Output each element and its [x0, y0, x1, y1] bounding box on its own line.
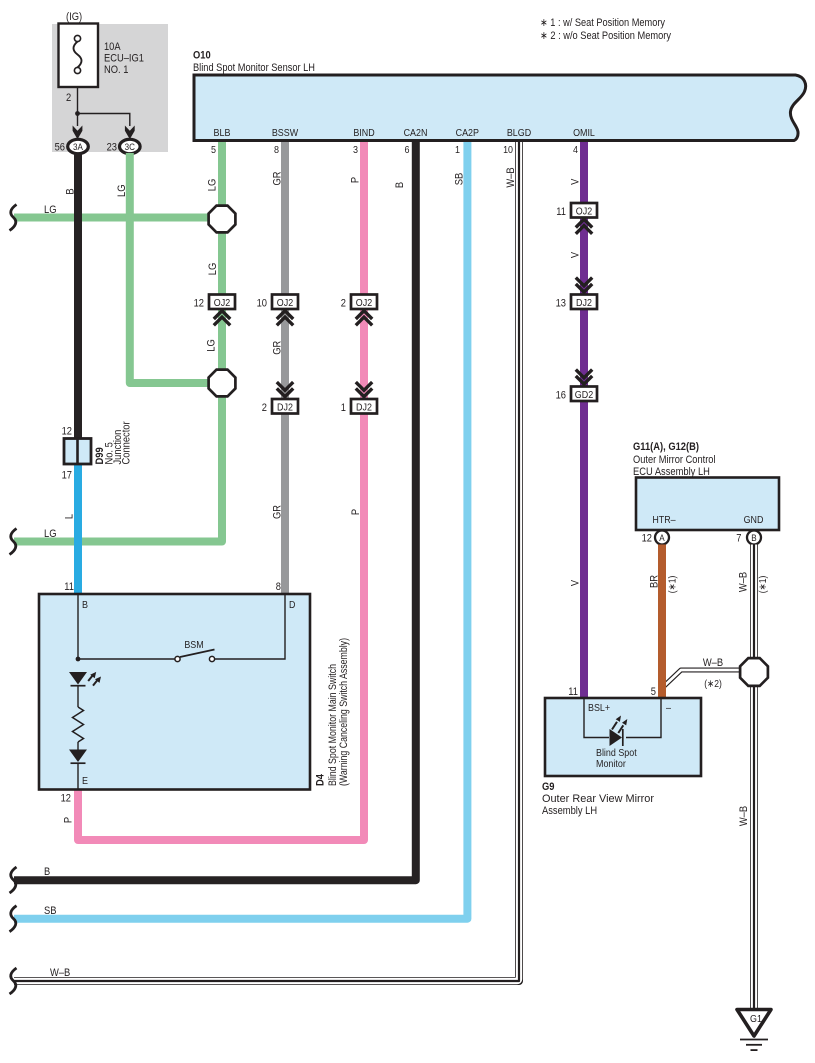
svg-text:G9: G9: [542, 781, 555, 793]
wire LED to resistor: [77, 686, 79, 707]
svg-text:(∗2): (∗2): [704, 678, 722, 690]
svg-text:8: 8: [274, 144, 279, 156]
svg-text:L: L: [64, 514, 76, 519]
chevrons up below 12 OJ2: [214, 311, 230, 326]
break squiggle left W-B: [10, 968, 17, 994]
svg-text:GND: GND: [744, 514, 764, 526]
svg-text:∗ 2 : w/o Seat Position Memory: ∗ 2 : w/o Seat Position Memory: [540, 30, 671, 42]
svg-text:OJ2: OJ2: [576, 206, 593, 218]
wire resistor to diode: [77, 742, 79, 750]
svg-text:10: 10: [257, 298, 267, 310]
connector 3C: [120, 139, 141, 153]
svg-text:5: 5: [211, 144, 216, 156]
wire P DJ2 down, left, up to switch pin 12: [78, 413, 364, 840]
wire V OJ2 to DJ2: [580, 216, 588, 295]
wire W-B from BLGD pin 10 down and left to break: [14, 139, 519, 981]
ECU O10 Blind Spot Monitor Sensor LH: [194, 75, 806, 141]
connector 12 OJ2: [209, 295, 235, 310]
svg-text:G11(A), G12(B): G11(A), G12(B): [633, 441, 699, 453]
svg-text:LG: LG: [44, 204, 57, 216]
svg-text:Assembly LH: Assembly LH: [542, 805, 597, 817]
connector 2 DJ2: [272, 399, 298, 414]
svg-text:B: B: [82, 599, 88, 611]
svg-text:BLB: BLB: [214, 127, 231, 139]
svg-text:12: 12: [61, 793, 71, 805]
chevrons up below 11 OJ2: [576, 219, 592, 234]
svg-text:O10: O10: [193, 50, 211, 62]
wire LG octagon J1 to connector OJ2: [218, 232, 226, 295]
svg-text:4: 4: [573, 144, 578, 156]
svg-text:BSM: BSM: [184, 639, 203, 651]
wire LG from 3C down and right to octagon J2: [130, 153, 209, 383]
ECU G11 box: [636, 478, 779, 531]
fuse F 10A ECU-IG1 NO.1: [59, 24, 99, 88]
svg-text:V: V: [570, 178, 582, 185]
svg-text:17: 17: [62, 470, 72, 482]
svg-text:DJ2: DJ2: [576, 297, 592, 309]
svg-text:1: 1: [455, 144, 460, 156]
svg-text:V: V: [570, 251, 582, 258]
svg-text:11: 11: [556, 206, 566, 218]
wire inside from B: [77, 594, 79, 659]
svg-text:2: 2: [341, 298, 346, 310]
svg-text:B: B: [65, 188, 77, 194]
connector 10 OJ2: [272, 295, 298, 310]
wire LG horizontal upper from left break: [14, 214, 209, 222]
svg-text:3A: 3A: [73, 142, 83, 153]
svg-text:Blind Spot Monitor Sensor LH: Blind Spot Monitor Sensor LH: [193, 62, 315, 74]
octagon junction J2: [209, 370, 236, 397]
wire GR from BSSW pin 8 to OJ2: [281, 141, 289, 295]
svg-text:∗ 1 : w/ Seat Position Memory: ∗ 1 : w/ Seat Position Memory: [540, 17, 665, 29]
svg-text:LG: LG: [44, 528, 57, 540]
wire W-B branch octagon to pin 5: [663, 670, 746, 688]
wire GR DJ2 to switch pin D: [281, 413, 289, 594]
pin A circle: [655, 531, 669, 545]
svg-text:B: B: [394, 182, 406, 188]
svg-text:GR: GR: [272, 505, 284, 519]
svg-text:LG: LG: [116, 184, 128, 197]
svg-text:10: 10: [503, 144, 513, 156]
svg-text:D4: D4: [315, 773, 327, 786]
svg-text:2: 2: [66, 92, 71, 104]
connector 2 OJ2: [351, 295, 377, 310]
svg-text:P: P: [349, 177, 361, 183]
svg-text:OMIL: OMIL: [573, 127, 595, 139]
svg-text:1: 1: [341, 402, 346, 414]
wire B from CA2N pin 6 down and left to break: [14, 141, 416, 880]
wire branch to 3C: [78, 114, 130, 127]
chevrons up below 10 OJ2: [277, 311, 293, 326]
svg-text:E: E: [82, 775, 88, 787]
wire LG octagon J2 down and left to break: [14, 396, 222, 542]
svg-text:BIND: BIND: [353, 127, 375, 139]
break squiggle left B: [10, 867, 17, 893]
svg-text:V: V: [570, 579, 582, 586]
svg-text:G1: G1: [750, 1013, 762, 1025]
svg-text:OJ2: OJ2: [214, 297, 231, 309]
svg-text:W–B: W–B: [703, 657, 723, 669]
chevrons down above 1 DJ2: [356, 382, 372, 397]
svg-text:SB: SB: [44, 905, 57, 917]
wire GR between OJ2 and DJ2: [281, 308, 289, 400]
svg-text:–: –: [666, 702, 671, 714]
svg-text:LG: LG: [207, 263, 219, 276]
svg-text:10A: 10A: [104, 41, 121, 53]
wire stem to 3A: [77, 114, 79, 127]
svg-text:GD2: GD2: [575, 389, 594, 401]
svg-text:GR: GR: [272, 341, 284, 355]
wire LG from BLB pin 5 to octagon J1: [218, 141, 226, 206]
svg-text:BR: BR: [649, 575, 661, 588]
svg-text:Outer Rear View Mirror: Outer Rear View Mirror: [542, 793, 654, 805]
chevrons down above 13 DJ2: [576, 278, 592, 293]
pin B circle: [747, 531, 761, 545]
svg-text:12: 12: [194, 298, 204, 310]
switch BSM: [175, 650, 215, 662]
svg-text:3C: 3C: [125, 142, 135, 153]
svg-text:16: 16: [556, 390, 566, 402]
svg-text:W–B: W–B: [738, 572, 750, 592]
svg-text:12: 12: [62, 426, 72, 438]
LED blind spot monitor: [610, 716, 628, 747]
svg-text:2: 2: [262, 402, 267, 414]
octagon junction J3: [740, 658, 768, 686]
wire V from OMIL pin 4 to OJ2: [580, 141, 588, 203]
svg-text:W–B: W–B: [738, 806, 750, 826]
junction connector D99: [74, 464, 82, 594]
connector 3A: [68, 139, 89, 153]
resistor: [73, 707, 84, 742]
wire fuse to junction: [77, 88, 79, 114]
wire W-B from pin B to ground: [750, 545, 758, 1010]
connector arrow into 3C: [125, 126, 135, 140]
wire LG below OJ2 to octagon J2: [218, 308, 226, 370]
wire P from BIND pin 3 to OJ2: [360, 141, 368, 295]
connector 16 GD2: [571, 387, 597, 402]
svg-text:(Warning Canceling Switch Asse: (Warning Canceling Switch Assembly): [338, 638, 350, 786]
svg-text:11: 11: [64, 581, 74, 593]
svg-text:56: 56: [55, 142, 65, 154]
svg-text:6: 6: [405, 144, 410, 156]
svg-text:DJ2: DJ2: [277, 402, 293, 414]
svg-text:LG: LG: [207, 179, 219, 192]
wire dot to switch: [78, 658, 175, 660]
svg-text:W–B: W–B: [50, 967, 70, 979]
diode: [69, 750, 87, 764]
octagon junction J1: [209, 206, 236, 233]
svg-text:BSSW: BSSW: [272, 127, 298, 139]
svg-text:(IG): (IG): [66, 11, 82, 23]
svg-text:7: 7: [736, 533, 741, 545]
svg-text:HTR–: HTR–: [652, 514, 675, 526]
svg-text:LG: LG: [206, 339, 218, 352]
svg-text:Connector: Connector: [121, 421, 133, 464]
node dot: [76, 657, 81, 662]
svg-text:B: B: [44, 866, 50, 878]
junction dot: [75, 111, 80, 116]
chevrons down above 16 GD2: [576, 370, 592, 385]
svg-text:P: P: [63, 817, 75, 823]
svg-text:D: D: [289, 599, 296, 611]
svg-text:11: 11: [568, 686, 578, 698]
svg-text:(∗1): (∗1): [666, 576, 678, 594]
connector 1 DJ2: [351, 399, 377, 414]
svg-text:BLGD: BLGD: [507, 127, 532, 139]
LED indicator: [69, 672, 101, 686]
svg-text:SB: SB: [454, 173, 466, 186]
fuse block shaded area: [52, 24, 168, 152]
earth symbol: [740, 1040, 768, 1051]
wire B from 3A to D99 pin 12: [74, 153, 82, 439]
svg-text:A: A: [659, 533, 665, 544]
svg-text:Outer Mirror Control: Outer Mirror Control: [633, 454, 716, 466]
break squiggle left upper LG: [10, 205, 17, 231]
svg-text:5: 5: [651, 686, 656, 698]
connector 11 OJ2 on V wire: [571, 203, 597, 218]
svg-text:8: 8: [276, 581, 281, 593]
svg-text:OJ2: OJ2: [356, 297, 373, 309]
svg-text:13: 13: [556, 298, 566, 310]
connector 13 DJ2: [571, 295, 597, 310]
svg-text:P: P: [350, 509, 362, 515]
svg-text:OJ2: OJ2: [277, 297, 294, 309]
wire V DJ2 to GD2: [580, 308, 588, 387]
svg-text:3: 3: [353, 144, 358, 156]
svg-text:CA2P: CA2P: [456, 127, 479, 139]
svg-text:12: 12: [642, 533, 652, 545]
inner wiring G9: [584, 699, 609, 738]
wire SB from CA2P pin 1 down and left to break: [14, 141, 467, 919]
svg-text:W–B: W–B: [505, 167, 517, 187]
svg-text:BSL+: BSL+: [588, 702, 610, 714]
wire diode to E: [77, 763, 79, 790]
chevrons down above 2 DJ2: [277, 382, 293, 397]
svg-text:GR: GR: [272, 171, 284, 185]
svg-text:Monitor: Monitor: [596, 758, 626, 770]
ground G1: [737, 1010, 771, 1037]
wire V GD2 to G9 pin 11: [580, 400, 588, 698]
break squiggle left SB: [10, 906, 17, 932]
wire P between OJ2 and DJ2: [360, 308, 368, 400]
svg-text:23: 23: [107, 142, 117, 154]
svg-text:CA2N: CA2N: [404, 127, 428, 139]
svg-text:DJ2: DJ2: [356, 402, 372, 414]
connector arrow into 3A: [73, 126, 83, 140]
svg-text:ECU–IG1: ECU–IG1: [104, 53, 144, 65]
chevrons up below 2 OJ2: [356, 311, 372, 326]
switch assembly D4 box: [39, 594, 310, 790]
break squiggle left lower LG: [10, 529, 17, 555]
svg-text:B: B: [751, 533, 756, 544]
wire switch to D: [215, 594, 285, 659]
svg-text:NO. 1: NO. 1: [104, 64, 128, 76]
svg-text:(∗1): (∗1): [757, 576, 769, 594]
mirror assembly G9 box: [545, 698, 701, 776]
wire BR from pin A to G9 pin 5: [658, 545, 666, 699]
